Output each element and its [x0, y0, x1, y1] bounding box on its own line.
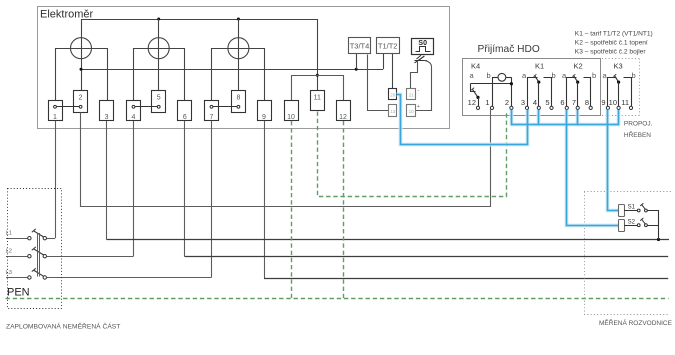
- svg-text:K3: K3: [614, 62, 623, 71]
- svg-text:2: 2: [505, 98, 509, 107]
- svg-text:12: 12: [339, 114, 347, 121]
- svg-text:b: b: [592, 71, 596, 80]
- wire K1 to terminal 4: [538, 82, 540, 106]
- green wire meter terminal 12: [343, 121, 345, 298]
- wire meter terminal 1 down to L1 switch: [55, 121, 57, 238]
- svg-text:9: 9: [601, 98, 605, 107]
- terminal box 7: [205, 101, 219, 122]
- wire K2 a-line: [567, 78, 577, 107]
- junction dot bus L1 and S1/S2: [657, 238, 660, 241]
- meter aux terminal box bottom-right: [407, 105, 416, 117]
- svg-text:PROPOJ.: PROPOJ.: [624, 121, 653, 128]
- measuring element 2 circle: [148, 38, 169, 59]
- fuse S1: [619, 203, 659, 216]
- svg-text:12: 12: [468, 98, 476, 107]
- K4 fixed contact hook: [471, 84, 476, 92]
- terminal block T1/T2: [377, 38, 400, 54]
- bus line L1 out: [107, 239, 669, 241]
- wire K4 common to terminal 2: [511, 77, 513, 106]
- svg-text:b: b: [487, 71, 491, 80]
- junction dot terminal 11 loop: [316, 74, 319, 77]
- svg-text:10: 10: [409, 109, 415, 114]
- blue wiring glow underlay: [397, 95, 619, 226]
- blue wire HDO terminal 7 drop: [577, 110, 579, 126]
- wire K3 to terminal 10: [618, 82, 620, 106]
- sealed unmetered part dotted box: [8, 189, 62, 309]
- svg-text:8: 8: [585, 98, 589, 107]
- wire K4 to terminal 12: [478, 97, 480, 106]
- wire measuring element 2 vertical: [158, 19, 160, 91]
- wire K3 a-line: [608, 78, 617, 107]
- svg-text:HŘEBEN: HŘEBEN: [624, 130, 651, 139]
- svg-text:21: 21: [409, 93, 415, 98]
- relay K4 group: [470, 62, 514, 107]
- svg-text:b: b: [552, 71, 556, 80]
- blue wire HDO terminal 9 to S1: [608, 110, 619, 211]
- svg-text:K4: K4: [471, 62, 480, 71]
- junction dot on top rail: [237, 18, 240, 21]
- svg-text:13: 13: [390, 109, 396, 114]
- svg-text:Elektroměr: Elektroměr: [40, 9, 94, 21]
- measuring element 3 circle: [228, 38, 249, 59]
- wire element 1 current loop: [56, 49, 108, 101]
- terminal box 11: [311, 91, 325, 111]
- svg-text:1: 1: [485, 98, 489, 107]
- main switch L3 pole: [6, 268, 212, 279]
- svg-text:5: 5: [157, 95, 161, 102]
- K2 contact blade: [574, 76, 578, 82]
- switch mechanical linkage: [38, 233, 40, 277]
- bus line L2 out: [185, 256, 668, 258]
- wire meter terminal 6 to bus L2: [184, 121, 186, 257]
- junction dot on top rail: [157, 18, 160, 21]
- svg-text:T1/T2: T1/T2: [378, 42, 398, 51]
- blue wire HDO terminal 6 to S2: [567, 110, 619, 226]
- wire meter terminal 9 to bus L3: [264, 121, 266, 278]
- svg-text:4: 4: [132, 114, 136, 121]
- wire link terminals 1-2: [57, 106, 79, 108]
- svg-text:K2 – spotřebič č.1 topení: K2 – spotřebič č.1 topení: [575, 39, 648, 46]
- measured distribution board dotted box: [584, 192, 671, 315]
- svg-text:4: 4: [533, 98, 537, 107]
- legend tariff text: [575, 31, 653, 56]
- meter aux terminal box bottom-left: [389, 105, 397, 117]
- dotted extension of measured board around K3: [602, 59, 640, 116]
- green wire meter terminal 10: [291, 121, 293, 298]
- terminal box 3: [100, 101, 114, 122]
- S0 output switch symbol: [415, 55, 427, 63]
- HDO terminal circles: [476, 106, 632, 109]
- relay K2 group: [562, 62, 596, 107]
- svg-text:S0: S0: [418, 40, 427, 47]
- junction dot voltage tap left: [80, 68, 83, 71]
- K1 contact blade: [535, 76, 539, 82]
- blue wire HDO terminal 2 drop: [511, 110, 513, 126]
- svg-text:-: -: [418, 88, 420, 94]
- blue wire HDO terminal 4 drop: [538, 110, 540, 126]
- wire S0 right leg: [416, 60, 432, 110]
- junction dot K4: [510, 82, 513, 85]
- terminal box 4: [127, 101, 141, 122]
- wire T1/T2 right lead: [392, 54, 394, 88]
- HDO terminal numbers: [468, 98, 629, 107]
- wire T3/T4 left lead: [356, 54, 358, 69]
- wire K3 b-line to terminal 11: [624, 78, 632, 107]
- wire measuring element 1 vertical: [81, 19, 83, 91]
- main switch L1 pole: [6, 229, 56, 240]
- svg-text:+: +: [417, 104, 420, 110]
- svg-text:Přijímač HDO: Přijímač HDO: [478, 44, 540, 55]
- wire K1 a-line: [528, 78, 538, 107]
- svg-text:L2: L2: [6, 249, 12, 255]
- svg-text:MĚŘENÁ ROZVODNICE: MĚŘENÁ ROZVODNICE: [599, 318, 673, 327]
- main switch L2 pole: [6, 247, 134, 258]
- relay K1 group: [522, 62, 556, 107]
- svg-text:3: 3: [521, 98, 525, 107]
- K4 contact blade: [473, 89, 479, 97]
- svg-text:L1: L1: [6, 231, 12, 237]
- terminal box 9: [258, 101, 272, 122]
- wire S1 S2 to bus L1: [658, 211, 660, 240]
- svg-text:6: 6: [183, 114, 187, 121]
- blue wire S0 to HDO terminal 3: [397, 95, 528, 145]
- wire K4 b to terminal 1: [492, 77, 494, 106]
- terminal box 5: [152, 91, 166, 113]
- svg-text:20: 20: [390, 93, 396, 98]
- svg-text:5: 5: [545, 98, 549, 107]
- wire element 2 current loop: [134, 49, 185, 101]
- terminal box 1: [49, 101, 63, 122]
- terminal box 8: [232, 91, 246, 113]
- wire T3/T4 right lead: [368, 55, 389, 111]
- svg-text:11: 11: [314, 95, 321, 102]
- wire loop terminals 10 and 12: [292, 76, 344, 101]
- svg-text:K1 – tarif T1/T2 (VT1/NT1): K1 – tarif T1/T2 (VT1/NT1): [575, 31, 653, 38]
- svg-text:3: 3: [105, 114, 109, 121]
- svg-text:10: 10: [609, 98, 617, 107]
- wire voltage tap line: [81, 69, 383, 71]
- wire link terminals 7-8: [213, 106, 237, 108]
- meter aux terminal box top-left: [389, 89, 397, 100]
- wire meter terminal 3 to bus L1: [106, 121, 108, 240]
- K4 coil circle: [498, 73, 506, 81]
- wire element 3 current loop: [212, 49, 265, 101]
- junction dot voltage tap at T3/T4: [355, 68, 358, 71]
- wire terminal 11 drop from top rail: [317, 19, 319, 91]
- terminal box 6: [178, 101, 192, 122]
- svg-text:1: 1: [53, 114, 57, 121]
- wire meter terminal 7 down to L3 switch: [211, 121, 213, 278]
- svg-text:L3: L3: [6, 270, 12, 276]
- wire S0 left leg: [411, 62, 418, 89]
- measuring element 1 circle: [71, 38, 92, 59]
- svg-text:K2: K2: [574, 62, 583, 71]
- svg-text:K1: K1: [535, 62, 544, 71]
- svg-text:7: 7: [210, 114, 214, 121]
- wire K2 to terminal 7: [577, 82, 579, 106]
- svg-text:S1: S1: [628, 205, 636, 211]
- label PROPOJ. HREBEN: [624, 121, 653, 139]
- terminal box 12: [337, 101, 351, 122]
- wire K4 coil leads: [492, 77, 498, 79]
- green PEN bus: [6, 298, 669, 300]
- svg-text:S2: S2: [628, 220, 636, 226]
- svg-text:6: 6: [560, 98, 564, 107]
- wire meter terminal 4 down to L2 switch: [133, 121, 135, 256]
- meter aux terminal box top-right: [407, 89, 416, 100]
- wire K1 b-line to terminal 5: [544, 78, 552, 107]
- meter enclosure box Elektromer: [38, 7, 450, 129]
- svg-text:2: 2: [79, 95, 83, 102]
- svg-text:8: 8: [236, 95, 240, 102]
- K3 contact blade: [615, 76, 619, 82]
- svg-text:PEN: PEN: [7, 287, 30, 299]
- S0 pulse output box: [412, 39, 434, 55]
- relay K3 group: [603, 62, 636, 107]
- green wire meter terminal 11 to HDO terminal 2: [318, 112, 507, 197]
- terminal box 10: [285, 101, 299, 122]
- wire measuring element 3 vertical: [238, 19, 240, 91]
- receiver enclosure box Prijimac HDO: [463, 59, 601, 116]
- svg-text:b: b: [632, 71, 636, 80]
- svg-text:7: 7: [572, 98, 576, 107]
- fuse S2: [619, 218, 659, 232]
- svg-text:10: 10: [287, 114, 295, 121]
- wire K2 b-line to terminal 8: [584, 78, 591, 107]
- terminal block T3/T4: [349, 38, 371, 54]
- svg-text:ZAPLOMBOVANÁ NEMĚŘENÁ ČÁST: ZAPLOMBOVANÁ NEMĚŘENÁ ČÁST: [6, 322, 120, 331]
- wire K4 a-line: [471, 83, 512, 85]
- wire T1/T2 left lead: [383, 54, 385, 69]
- svg-text:11: 11: [621, 98, 629, 107]
- svg-text:K3 – spotřebič č.2 bojler: K3 – spotřebič č.2 bojler: [575, 48, 647, 55]
- bus line L3 out: [264, 278, 668, 280]
- blue jumper bus: [511, 124, 618, 126]
- terminal box 2: [74, 91, 88, 113]
- svg-text:T3/T4: T3/T4: [350, 42, 370, 51]
- wire top voltage rail: [82, 19, 318, 21]
- svg-text:9: 9: [262, 114, 266, 121]
- wire meter terminal 2 to HDO terminal 1: [81, 110, 491, 207]
- wire link terminals 4-5: [135, 106, 157, 108]
- blue wire HDO terminal 10 drop: [618, 110, 620, 126]
